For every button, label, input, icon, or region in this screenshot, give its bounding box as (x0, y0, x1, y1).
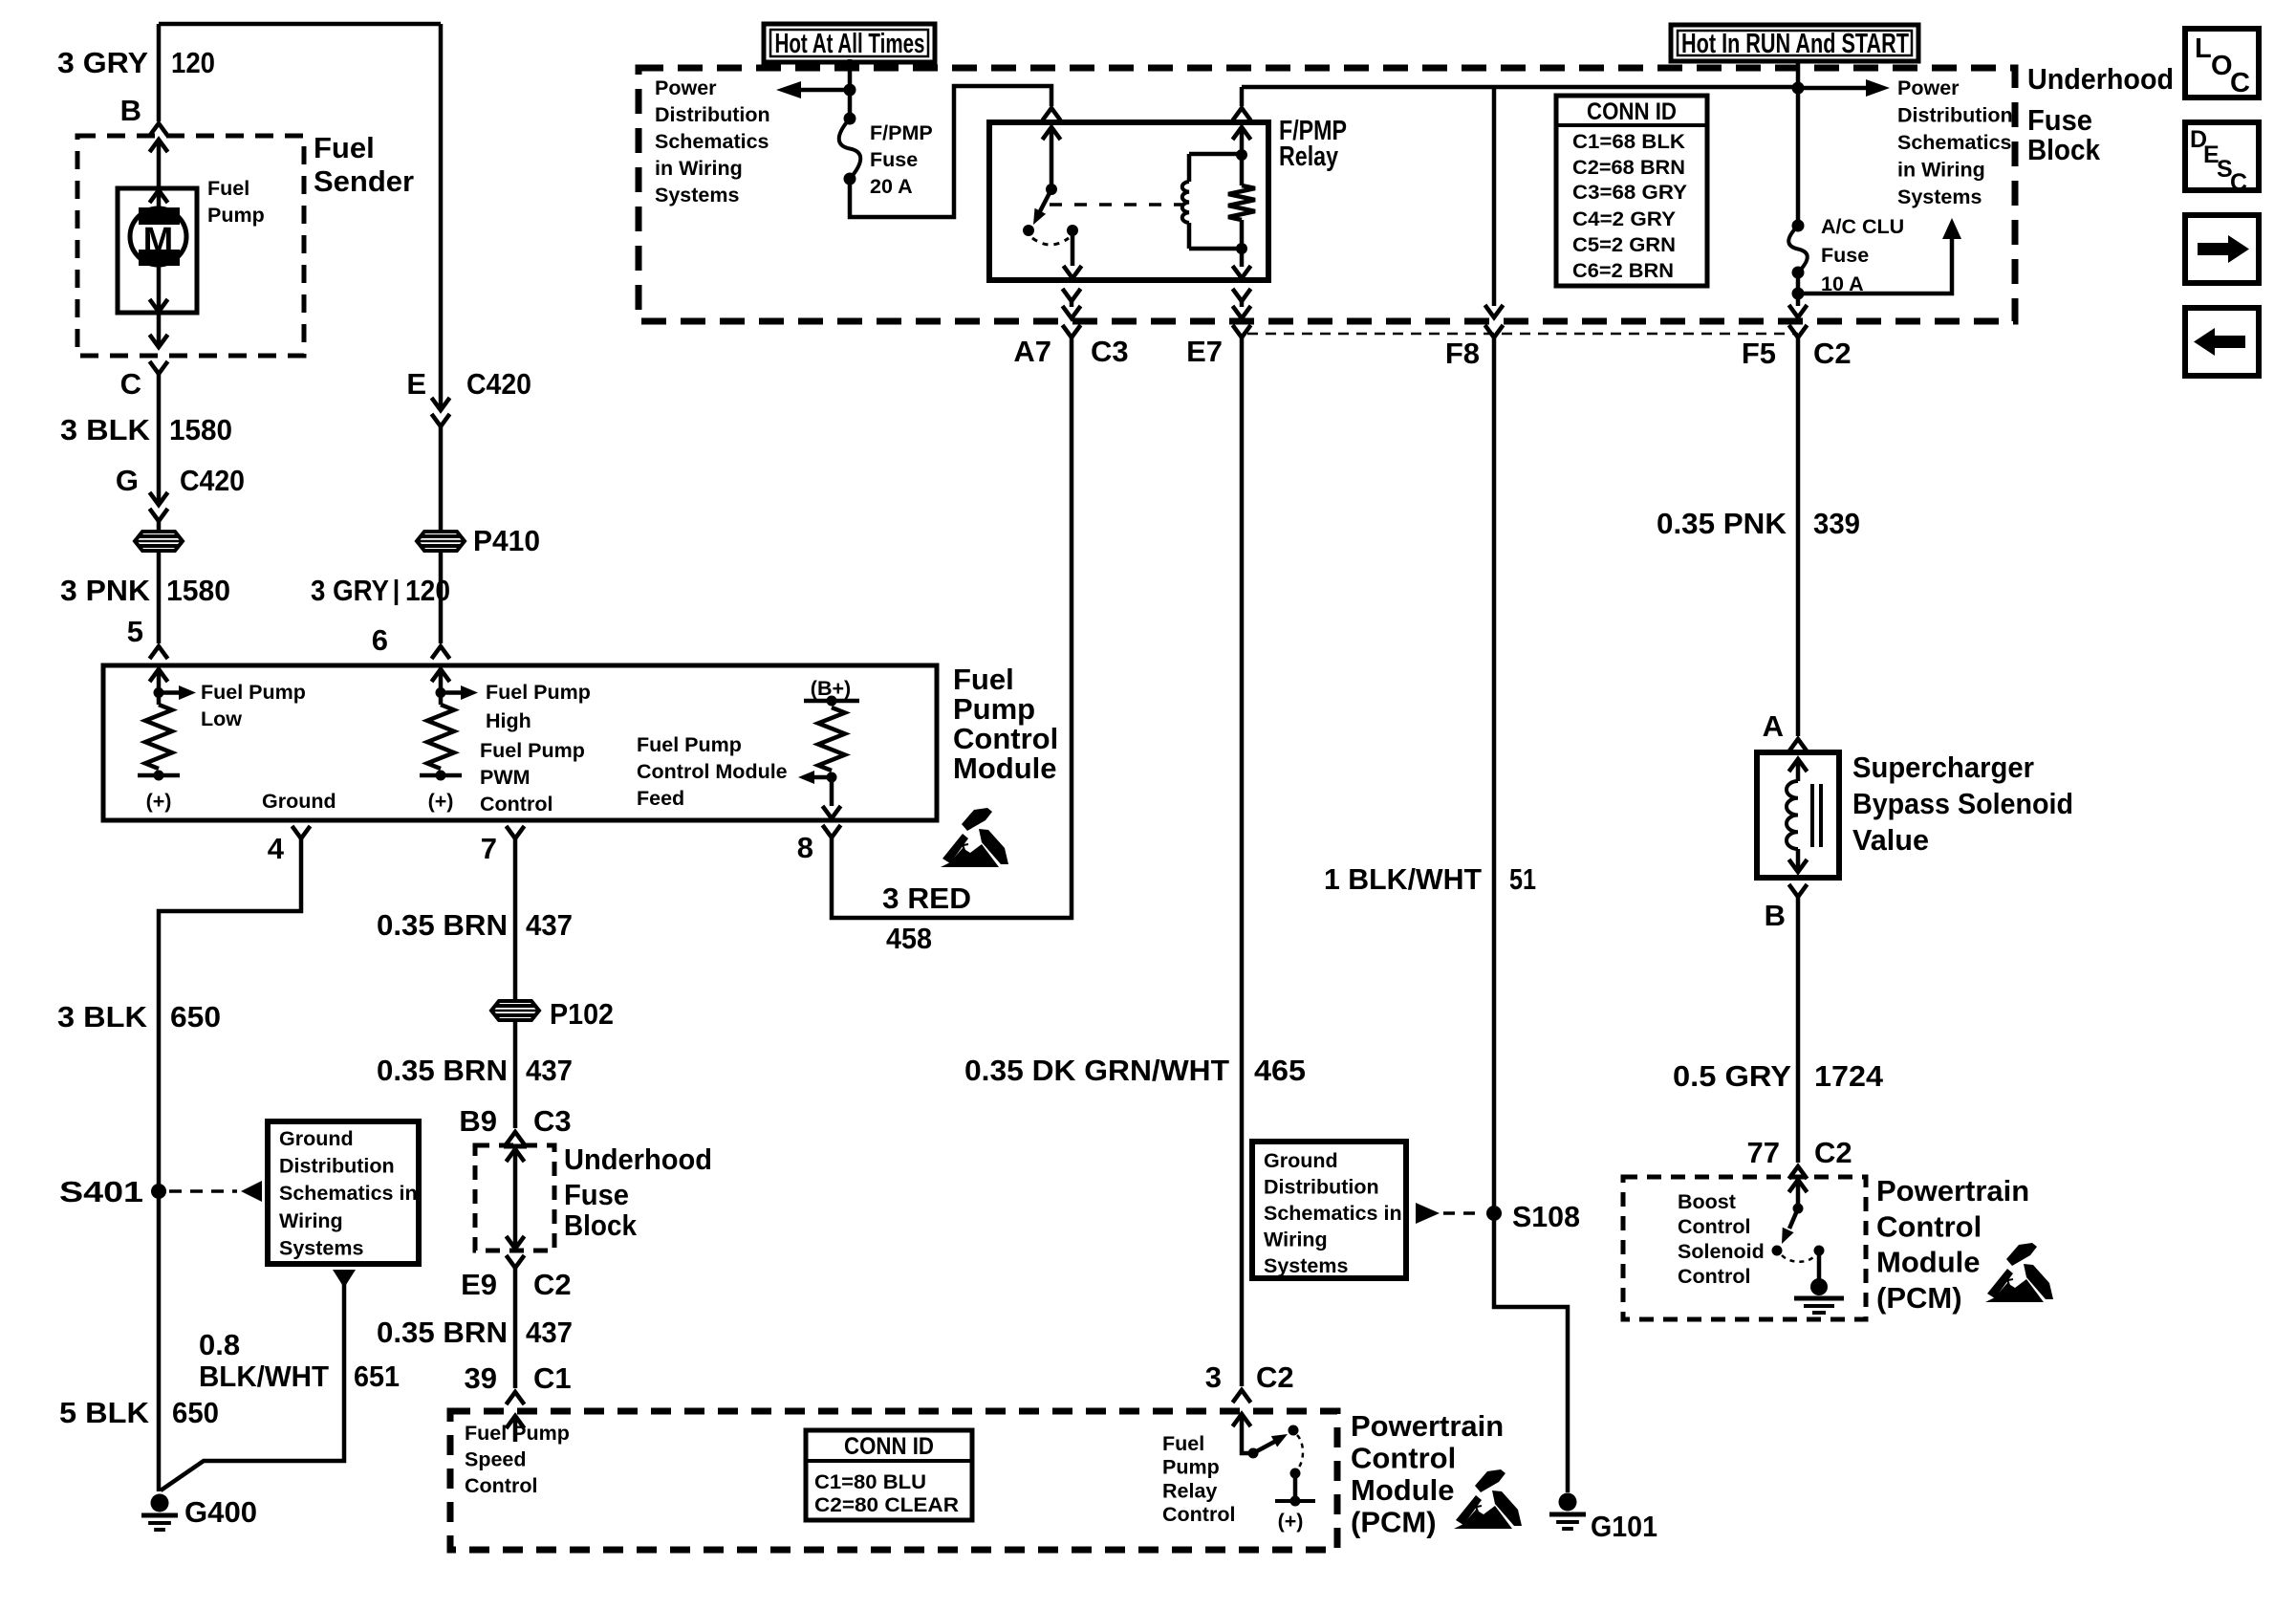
svg-text:Control: Control (1678, 1215, 1750, 1238)
svg-text:Underhood: Underhood (564, 1142, 712, 1176)
svg-text:Distribution: Distribution (655, 103, 770, 126)
svg-text:PWM: PWM (480, 766, 531, 789)
svg-text:Pump: Pump (953, 692, 1035, 726)
svg-text:Relay: Relay (1162, 1479, 1217, 1502)
svg-text:Fuel Pump: Fuel Pump (465, 1422, 570, 1445)
wire: motor bottom lead (157, 265, 162, 311)
node C marker below fuel sender (150, 361, 168, 374)
connector marker: B9 into fuse block (507, 1132, 525, 1144)
svg-text:Schematics: Schematics (655, 130, 769, 153)
FPCM pin5 terminal bar (138, 773, 180, 778)
svg-text:Systems: Systems (279, 1236, 363, 1259)
inline connector C420 (G) (150, 492, 168, 505)
svg-text:Control Module: Control Module (637, 760, 788, 783)
connector marker: E7 below fuse block (1233, 325, 1251, 337)
svg-text:Fuse: Fuse (1821, 244, 1869, 267)
powertrain control module dashed box (right) (1623, 1177, 1866, 1319)
svg-text:C: C (120, 367, 141, 401)
grommet (left, unlabeled) (135, 532, 183, 551)
resistor: module feed (818, 707, 845, 771)
svg-text:650: 650 (172, 1396, 219, 1429)
svg-text:M: M (143, 221, 174, 261)
wire: A7 to FPCM pin 8 (3 RED 458) (832, 337, 1072, 918)
fuse F/PMP 20A symbol (839, 119, 861, 179)
connector marker: E9 out of fuse block (507, 1255, 525, 1268)
dashed reference: ground distribution note to S108 (1416, 1203, 1440, 1224)
svg-text:Systems: Systems (1897, 185, 1982, 208)
wire: motor top lead (150, 190, 168, 203)
wire: E7 top lead down (1240, 87, 1245, 106)
svg-text:Fuse: Fuse (870, 148, 918, 171)
motor M circle (130, 208, 186, 265)
svg-text:0.35 BRN: 0.35 BRN (377, 908, 508, 942)
relay switch output lead (1071, 230, 1075, 266)
svg-text:0.5 GRY: 0.5 GRY (1673, 1059, 1791, 1093)
ground G400 (151, 1494, 169, 1512)
svg-text:C1=68 BLK: C1=68 BLK (1572, 130, 1685, 153)
svg-text:Schematics in: Schematics in (279, 1182, 418, 1205)
svg-text:(+): (+) (428, 790, 454, 813)
svg-text:Speed: Speed (465, 1448, 527, 1471)
svg-text:Supercharger: Supercharger (1852, 751, 2034, 784)
svg-text:F/PMP: F/PMP (870, 121, 933, 144)
resistor: fuel pump low driver (145, 705, 172, 769)
svg-text:0.35 BRN: 0.35 BRN (377, 1316, 508, 1349)
relay switch contacts (1023, 225, 1034, 236)
svg-text:1 BLK/WHT: 1 BLK/WHT (1324, 862, 1482, 896)
svg-text:6: 6 (372, 623, 388, 657)
svg-text:Powertrain: Powertrain (1351, 1409, 1504, 1443)
svg-text:C2: C2 (1814, 1136, 1852, 1169)
svg-text:3: 3 (1205, 1360, 1222, 1394)
svg-text:Schematics in: Schematics in (1264, 1202, 1402, 1225)
wire: node E branch down (439, 24, 444, 410)
fuse A/C CLU 10A symbol (1788, 226, 1808, 272)
svg-text:CONN ID: CONN ID (844, 1433, 934, 1460)
svg-text:(+): (+) (146, 790, 172, 813)
FPCM pin6 terminal bar (420, 773, 462, 778)
svg-text:in Wiring: in Wiring (655, 157, 743, 180)
underhood fuse block dashed box (small) (475, 1145, 554, 1251)
svg-text:Fuel Pump: Fuel Pump (201, 681, 306, 704)
svg-text:465: 465 (1254, 1054, 1306, 1087)
svg-text:5 BLK: 5 BLK (59, 1396, 150, 1429)
wire: F/PMP fuse feed from Hot At All Times (848, 59, 853, 119)
FPCM pin 6 internal lead (432, 669, 450, 682)
svg-text:Power: Power (1897, 76, 1960, 99)
ESD symbol: PCM right (1985, 1243, 2053, 1302)
svg-text:S401: S401 (59, 1175, 143, 1208)
svg-text:Control: Control (1351, 1442, 1456, 1475)
svg-text:7: 7 (481, 832, 497, 865)
svg-text:Hot At All Times: Hot At All Times (775, 29, 925, 59)
nav icon: left arrow box (2185, 308, 2259, 376)
svg-text:C420: C420 (466, 367, 531, 401)
note box: Ground Distribution Schematics in Wiring Systems (left) (268, 1121, 419, 1264)
svg-text:3 GRY: 3 GRY (311, 574, 389, 607)
svg-text:Hot In RUN And START: Hot In RUN And START (1681, 29, 1909, 59)
wire: pin 4 to S401 to G400 (3 BLK 650 / 5 BLK 650) (159, 838, 301, 1491)
svg-text:39: 39 (465, 1361, 497, 1395)
svg-text:High: High (486, 709, 531, 732)
PCM pin 3 internal lead (1233, 1414, 1251, 1426)
svg-text:L: L (2195, 33, 2212, 64)
wire: top feed run E7-F8-F5 (1242, 85, 1798, 90)
svg-text:Fuse: Fuse (2027, 103, 2092, 137)
wire: fuse to relay switch A7 input (850, 86, 1051, 217)
relay switch arm (1039, 189, 1051, 213)
wire: ground note box to G400 (0.8 BLK/WHT 651) (333, 1270, 356, 1288)
svg-text:3 BLK: 3 BLK (60, 413, 151, 446)
svg-text:C2: C2 (533, 1268, 572, 1301)
svg-text:0.35 PNK: 0.35 PNK (1657, 507, 1787, 540)
PCM pin 77 internal lead (1789, 1180, 1808, 1192)
fuel pump motor brushes (black pads) (139, 207, 180, 225)
wire: P102 to underhood fuse block B9 (513, 1021, 518, 1128)
connector marker: A7 below fuse block (1063, 325, 1081, 337)
wire: E9 to PCM pin 39 (513, 1268, 518, 1388)
fuel pump control module box (103, 665, 937, 820)
svg-text:437: 437 (526, 908, 573, 942)
wire: grommet to FPCM pin 5 (157, 552, 162, 643)
PCM fuel pump relay driver switch arm (1253, 1440, 1278, 1453)
FPCM B+ bar (804, 699, 859, 704)
svg-text:1724: 1724 (1814, 1059, 1884, 1093)
svg-text:S108: S108 (1512, 1200, 1580, 1233)
wire: through underhood fuse block (507, 1149, 525, 1162)
connector marker: into relay (switch) (1043, 108, 1061, 120)
svg-text:Fuse: Fuse (564, 1178, 629, 1211)
svg-text:3 GRY: 3 GRY (57, 46, 148, 79)
svg-text:(PCM): (PCM) (1351, 1506, 1437, 1539)
FPCM Fuel Pump Low branch arrow (159, 690, 179, 695)
note box: Ground Distribution Schematics in Wiring Systems (middle) (1252, 1142, 1406, 1278)
svg-text:C4=2 GRY: C4=2 GRY (1572, 207, 1676, 230)
nav icon: DESC box (2185, 122, 2259, 190)
PCM boost switch dashed throw arc (1782, 1255, 1815, 1262)
svg-text:Control: Control (480, 793, 552, 816)
svg-text:E9: E9 (461, 1268, 497, 1301)
svg-text:Low: Low (201, 707, 242, 730)
svg-text:Wiring: Wiring (1264, 1229, 1328, 1251)
svg-text:20 A: 20 A (870, 175, 913, 198)
svg-text:P410: P410 (473, 524, 540, 557)
svg-text:C3: C3 (533, 1104, 572, 1138)
svg-text:0.35 BRN: 0.35 BRN (377, 1054, 508, 1087)
connector marker: pin 5 into FPCM (150, 646, 168, 659)
PCM boost control switch arm (1789, 1208, 1798, 1229)
svg-text:0.8: 0.8 (199, 1328, 240, 1361)
svg-text:51: 51 (1509, 862, 1536, 896)
svg-text:E: E (406, 367, 426, 401)
connector marker: pin 7 out of FPCM (507, 826, 525, 838)
svg-text:CONN ID: CONN ID (1587, 98, 1677, 125)
svg-text:Module: Module (1351, 1473, 1455, 1507)
connector marker: A7 out of relay through fuse block edge (1063, 289, 1081, 301)
wire: F5 to supercharger solenoid A (0.35 PNK 339) (1796, 337, 1801, 736)
svg-text:C: C (2230, 169, 2247, 196)
dashed reference: S401 to ground distribution note (169, 1189, 237, 1193)
svg-text:Module: Module (953, 751, 1057, 785)
wire: pin 7 to grommet P102 (513, 838, 518, 1000)
svg-text:E7: E7 (1186, 335, 1223, 368)
reference arrow: power distribution (right) (1798, 86, 1866, 91)
wire: solenoid B to PCM pin 77 (0.5 GRY 1724) (1796, 897, 1801, 1163)
svg-text:in Wiring: in Wiring (1897, 159, 1985, 182)
svg-text:Fuel Pump: Fuel Pump (480, 739, 585, 762)
relay coil bottom lead (1240, 249, 1245, 267)
svg-text:Fuel: Fuel (953, 663, 1014, 696)
wire: Hot In RUN And START feed (1796, 60, 1801, 226)
svg-text:Ground: Ground (262, 790, 336, 813)
svg-text:3 BLK: 3 BLK (57, 1000, 148, 1033)
powertrain control module dashed box (bottom) (450, 1411, 1337, 1550)
wire: F8 feed stub (1492, 87, 1497, 306)
svg-text:Block: Block (2027, 133, 2101, 166)
svg-text:Systems: Systems (655, 184, 739, 207)
wire: C420 to grommet P410 (439, 426, 444, 532)
svg-text:Boost: Boost (1678, 1190, 1736, 1213)
svg-text:4: 4 (268, 832, 285, 865)
connector marker: F8 below fuse block (1485, 325, 1504, 337)
svg-text:P102: P102 (550, 997, 614, 1031)
svg-text:Ground: Ground (1264, 1149, 1338, 1172)
connector marker: B into Fuel Sender (150, 123, 168, 136)
svg-text:Relay: Relay (1279, 141, 1338, 172)
conn id table (PCM) (806, 1430, 972, 1520)
underhood fuse block dashed box (top) (639, 68, 2015, 321)
svg-text:Schematics: Schematics (1897, 131, 2012, 154)
conn id table (fuse block) (1556, 96, 1707, 286)
svg-text:A7: A7 (1013, 335, 1051, 368)
relay switch common lead (1043, 127, 1061, 140)
svg-text:C1=80 BLU: C1=80 BLU (814, 1470, 926, 1493)
wire: E7 to PCM pin 3 (0.35 DK GRN/WHT 465) (1240, 337, 1245, 1386)
hot in run and start box (1671, 25, 1918, 61)
splice S401 (151, 1184, 166, 1199)
relay switch dashed throw arc (1032, 238, 1069, 245)
svg-text:C6=2 BRN: C6=2 BRN (1572, 259, 1674, 282)
wire: B inside fuel sender to fuel pump motor (150, 140, 168, 152)
connector marker: pin 4 out of FPCM (292, 826, 311, 838)
reference arrow: power distribution (left) (801, 88, 850, 93)
grommet P410 (417, 532, 465, 551)
svg-text:Wiring: Wiring (279, 1209, 343, 1232)
svg-text:G400: G400 (184, 1495, 257, 1529)
svg-text:8: 8 (797, 831, 813, 864)
svg-text:Control: Control (465, 1474, 537, 1497)
svg-text:C3: C3 (1091, 335, 1129, 368)
svg-text:Fuel: Fuel (207, 177, 249, 200)
svg-text:G101: G101 (1591, 1510, 1657, 1543)
svg-text:B9: B9 (459, 1104, 497, 1138)
svg-text:Fuel: Fuel (314, 131, 375, 164)
svg-text:120: 120 (171, 46, 215, 79)
svg-text:Pump: Pump (1162, 1456, 1220, 1479)
PCM switch (+) terminal (1290, 1469, 1301, 1479)
svg-text:C3=68 GRY: C3=68 GRY (1572, 181, 1687, 204)
solenoid internal lead + coil (1789, 759, 1808, 772)
svg-text:C2: C2 (1813, 337, 1852, 370)
svg-text:Fuel Pump: Fuel Pump (486, 681, 591, 704)
resistor: fuel pump high driver (427, 705, 454, 769)
svg-text:C5=2 GRN: C5=2 GRN (1572, 233, 1676, 256)
svg-text:Power: Power (655, 76, 717, 99)
connector marker: F5 into fuse block edge (1789, 305, 1808, 317)
svg-text:437: 437 (526, 1316, 573, 1349)
svg-text:651: 651 (354, 1360, 400, 1393)
FPCM feed node + left arrow (827, 772, 837, 783)
svg-text:B: B (1765, 899, 1786, 932)
connector marker: pin 39 into PCM (507, 1392, 525, 1404)
svg-text:Control: Control (1876, 1209, 1982, 1243)
svg-text:120: 120 (405, 574, 450, 607)
supercharger bypass solenoid box (1757, 752, 1839, 878)
svg-text:458: 458 (886, 922, 932, 955)
svg-text:1580: 1580 (169, 413, 232, 446)
fuel pump solid box (118, 188, 197, 313)
svg-text:77: 77 (1747, 1136, 1780, 1169)
svg-text:Distribution: Distribution (1897, 104, 2013, 127)
svg-text:A/C CLU: A/C CLU (1821, 215, 1904, 238)
wire: C420 to grommet (157, 521, 162, 532)
svg-text:(PCM): (PCM) (1876, 1281, 1962, 1315)
connector marker: F5 below fuse block (1789, 325, 1808, 337)
FPCM Fuel Pump High branch arrow (441, 690, 461, 695)
svg-text:Solenoid: Solenoid (1678, 1240, 1765, 1263)
connector marker: A into solenoid (1789, 739, 1808, 751)
F/PMP relay box (989, 122, 1268, 280)
svg-text:F8: F8 (1445, 337, 1480, 370)
relay coil top lead (E7) (1233, 127, 1251, 140)
svg-text:650: 650 (170, 1000, 221, 1033)
svg-text:1580: 1580 (166, 574, 230, 607)
wire: fuel pump box to sender box bottom (157, 313, 162, 346)
wire: F8 to S108 to G101 (1 BLK/WHT 51) (1494, 337, 1568, 1492)
svg-text:437: 437 (526, 1054, 573, 1087)
svg-text:C: C (2230, 68, 2250, 98)
svg-text:Underhood: Underhood (2027, 62, 2174, 96)
svg-text:B: B (120, 94, 141, 127)
PCM boost switch ground contact (1814, 1246, 1825, 1256)
svg-text:Fuel Pump: Fuel Pump (637, 733, 742, 756)
nav icon: LOC box (2185, 29, 2259, 98)
ESD symbol: fuel pump control module (941, 808, 1008, 867)
thin dashed connector line C2 (1247, 333, 1798, 336)
svg-text:C2: C2 (1256, 1360, 1294, 1394)
wire: C down to C420 (157, 374, 162, 505)
svg-text:A: A (1763, 709, 1784, 743)
ESD symbol: PCM bottom middle (1454, 1469, 1522, 1529)
svg-text:(+): (+) (1278, 1510, 1304, 1533)
fuel sender dashed box (77, 136, 304, 356)
svg-text:339: 339 (1813, 507, 1860, 540)
svg-text:Ground: Ground (279, 1127, 354, 1150)
svg-text:G: G (116, 464, 139, 497)
PCM switch dashed throw arc (1297, 1435, 1303, 1469)
svg-text:Control: Control (953, 722, 1058, 755)
svg-text:C420: C420 (180, 464, 245, 497)
nav icon: right arrow box (2185, 215, 2259, 283)
svg-text:F5: F5 (1742, 337, 1776, 370)
svg-text:Distribution: Distribution (279, 1155, 395, 1178)
svg-text:C2=68 BRN: C2=68 BRN (1572, 156, 1685, 179)
svg-text:3 PNK: 3 PNK (60, 574, 151, 607)
wire: P410 to FPCM pin 6 (439, 552, 444, 643)
FPCM pin 8 internal lead (830, 777, 834, 806)
svg-text:5: 5 (127, 615, 143, 648)
svg-text:Control: Control (1162, 1503, 1235, 1526)
inline connector C420 (E) (432, 398, 450, 410)
svg-text:Control: Control (1678, 1265, 1750, 1288)
splice S108 (1486, 1206, 1502, 1221)
svg-text:Bypass Solenoid: Bypass Solenoid (1852, 787, 2073, 820)
svg-text:Value: Value (1852, 823, 1929, 857)
svg-text:0.35 DK GRN/WHT: 0.35 DK GRN/WHT (964, 1054, 1229, 1087)
relay mechanical dashed link (1050, 203, 1182, 207)
ground G101 (1559, 1493, 1577, 1512)
svg-text:Feed: Feed (637, 787, 684, 810)
svg-text:3 RED: 3 RED (882, 881, 971, 915)
PCM pin 39 internal lead (507, 1416, 525, 1428)
svg-text:Pump: Pump (207, 204, 265, 227)
wire: fuse to reference arrow up (1792, 288, 1805, 300)
wire: battery feed 3 GRY 120 top run (node B to node E top) (159, 22, 441, 27)
hot at all times box (764, 24, 935, 62)
svg-text:Powertrain: Powertrain (1876, 1174, 2029, 1207)
svg-text:Fuel: Fuel (1162, 1432, 1204, 1455)
connector marker: pin 6 into FPCM (432, 646, 450, 659)
relay coil suppression resistor (1236, 149, 1247, 161)
grommet P102 (491, 1001, 539, 1020)
svg-text:BLK/WHT: BLK/WHT (199, 1360, 329, 1393)
svg-text:Systems: Systems (1264, 1254, 1348, 1277)
relay coil (1187, 154, 1192, 182)
svg-text:Sender: Sender (314, 164, 414, 198)
svg-text:C2=80 CLEAR: C2=80 CLEAR (814, 1493, 959, 1516)
connector marker: E7 out of relay through fuse block edge (1233, 289, 1251, 301)
connector marker: B out of solenoid (1789, 884, 1808, 897)
FPCM pin 5 internal lead (150, 669, 168, 682)
svg-text:Module: Module (1876, 1246, 1981, 1279)
svg-text:C1: C1 (533, 1361, 572, 1395)
svg-text:Block: Block (564, 1208, 638, 1242)
svg-text:Distribution: Distribution (1264, 1176, 1379, 1199)
